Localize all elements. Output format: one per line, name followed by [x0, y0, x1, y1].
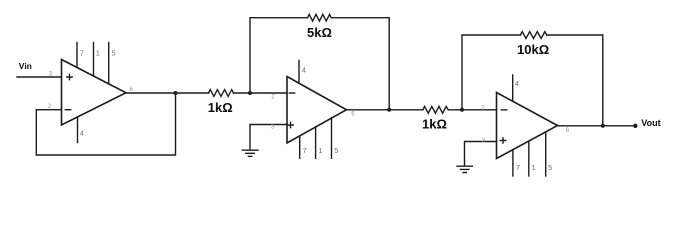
U2 plus symbol — [288, 122, 293, 127]
svg-text:5kΩ: 5kΩ — [307, 25, 332, 40]
svg-text:1: 1 — [96, 49, 100, 58]
node Vout terminal dot — [633, 124, 637, 128]
svg-text:6: 6 — [566, 128, 570, 134]
U3 pin 4 — [512, 75, 514, 101]
wire U1 pin 2 (inverting input) — [36, 109, 61, 111]
svg-text:4: 4 — [80, 129, 84, 138]
ground (U3) — [457, 166, 472, 172]
op-amp U1 — [62, 60, 127, 126]
svg-text:10kΩ: 10kΩ — [517, 42, 549, 57]
resistor R3 1k — [423, 106, 448, 113]
U1 plus symbol — [67, 74, 72, 79]
U2 pin 1 — [315, 127, 317, 159]
svg-text:6: 6 — [130, 87, 134, 93]
op-amp U3 — [497, 93, 558, 159]
wire feedback loop U1 output to pin 2 — [36, 93, 175, 155]
node junction dot U1 output — [174, 91, 178, 95]
wire feedback loop of U2 (top right and right riser) — [331, 18, 389, 110]
U3 minus symbol — [501, 109, 506, 111]
svg-text:7: 7 — [516, 163, 520, 172]
U1 pin 1 — [93, 43, 95, 77]
svg-text:1kΩ: 1kΩ — [208, 100, 233, 115]
node junction dot R3/U3/feedback — [460, 108, 464, 112]
svg-text:3: 3 — [271, 125, 275, 131]
U3 plus symbol — [500, 138, 505, 143]
U3 pin 7 — [512, 150, 514, 176]
svg-text:6: 6 — [351, 112, 355, 118]
svg-text:7: 7 — [80, 49, 84, 58]
U1 minus symbol — [65, 109, 70, 111]
node junction dot R1/U2/feedback — [248, 91, 252, 95]
op-amp U2 — [287, 77, 347, 144]
resistor R1 1k — [209, 90, 234, 97]
U2 minus symbol — [289, 92, 294, 94]
U1 pin 5 — [108, 43, 110, 85]
wire U1 output to R1 — [126, 92, 209, 94]
U2 pin 7 — [299, 136, 301, 159]
wire R1 to U2 pin 2 — [234, 92, 288, 94]
ground (U2) — [242, 150, 258, 156]
svg-text:Vout: Vout — [641, 118, 660, 128]
wire feedback loop of U2 (left riser and top) — [250, 18, 308, 93]
svg-text:5: 5 — [112, 49, 116, 58]
U2 pin 4 — [298, 60, 300, 83]
wire Vin to U1 pin 3 — [17, 76, 62, 78]
svg-text:4: 4 — [302, 65, 306, 74]
resistor R4 10k — [520, 32, 546, 39]
wire R3 to U3 pin 2 — [448, 109, 496, 111]
resistor R2 5k — [308, 14, 332, 21]
svg-text:1: 1 — [318, 146, 322, 155]
svg-text:1: 1 — [532, 163, 536, 172]
U3 pin 5 — [545, 132, 547, 176]
U2 pin 5 — [331, 118, 333, 159]
wire feedback loop of U3 (top right and right riser) — [547, 35, 603, 126]
svg-text:1kΩ: 1kΩ — [422, 116, 447, 131]
node junction dot U3 output / feedback — [601, 124, 605, 128]
U1 pin 7 — [76, 43, 78, 68]
svg-text:2: 2 — [271, 95, 275, 101]
svg-text:5: 5 — [334, 146, 338, 155]
wire U3 pin 3 to ground — [465, 142, 497, 166]
wire U2 pin 3 to ground — [250, 125, 287, 150]
node junction dot U2 output / feedback — [387, 108, 391, 112]
wire U2 output to R3 — [347, 109, 423, 111]
wire feedback loop of U3 (left riser and top) — [462, 35, 520, 110]
svg-text:7: 7 — [303, 146, 307, 155]
svg-text:4: 4 — [515, 79, 519, 88]
wire U3 output to Vout — [558, 125, 636, 127]
svg-text:Vin: Vin — [19, 61, 32, 71]
U1 pin 4 — [77, 117, 79, 143]
svg-text:5: 5 — [548, 163, 552, 172]
U3 pin 1 — [528, 141, 530, 176]
